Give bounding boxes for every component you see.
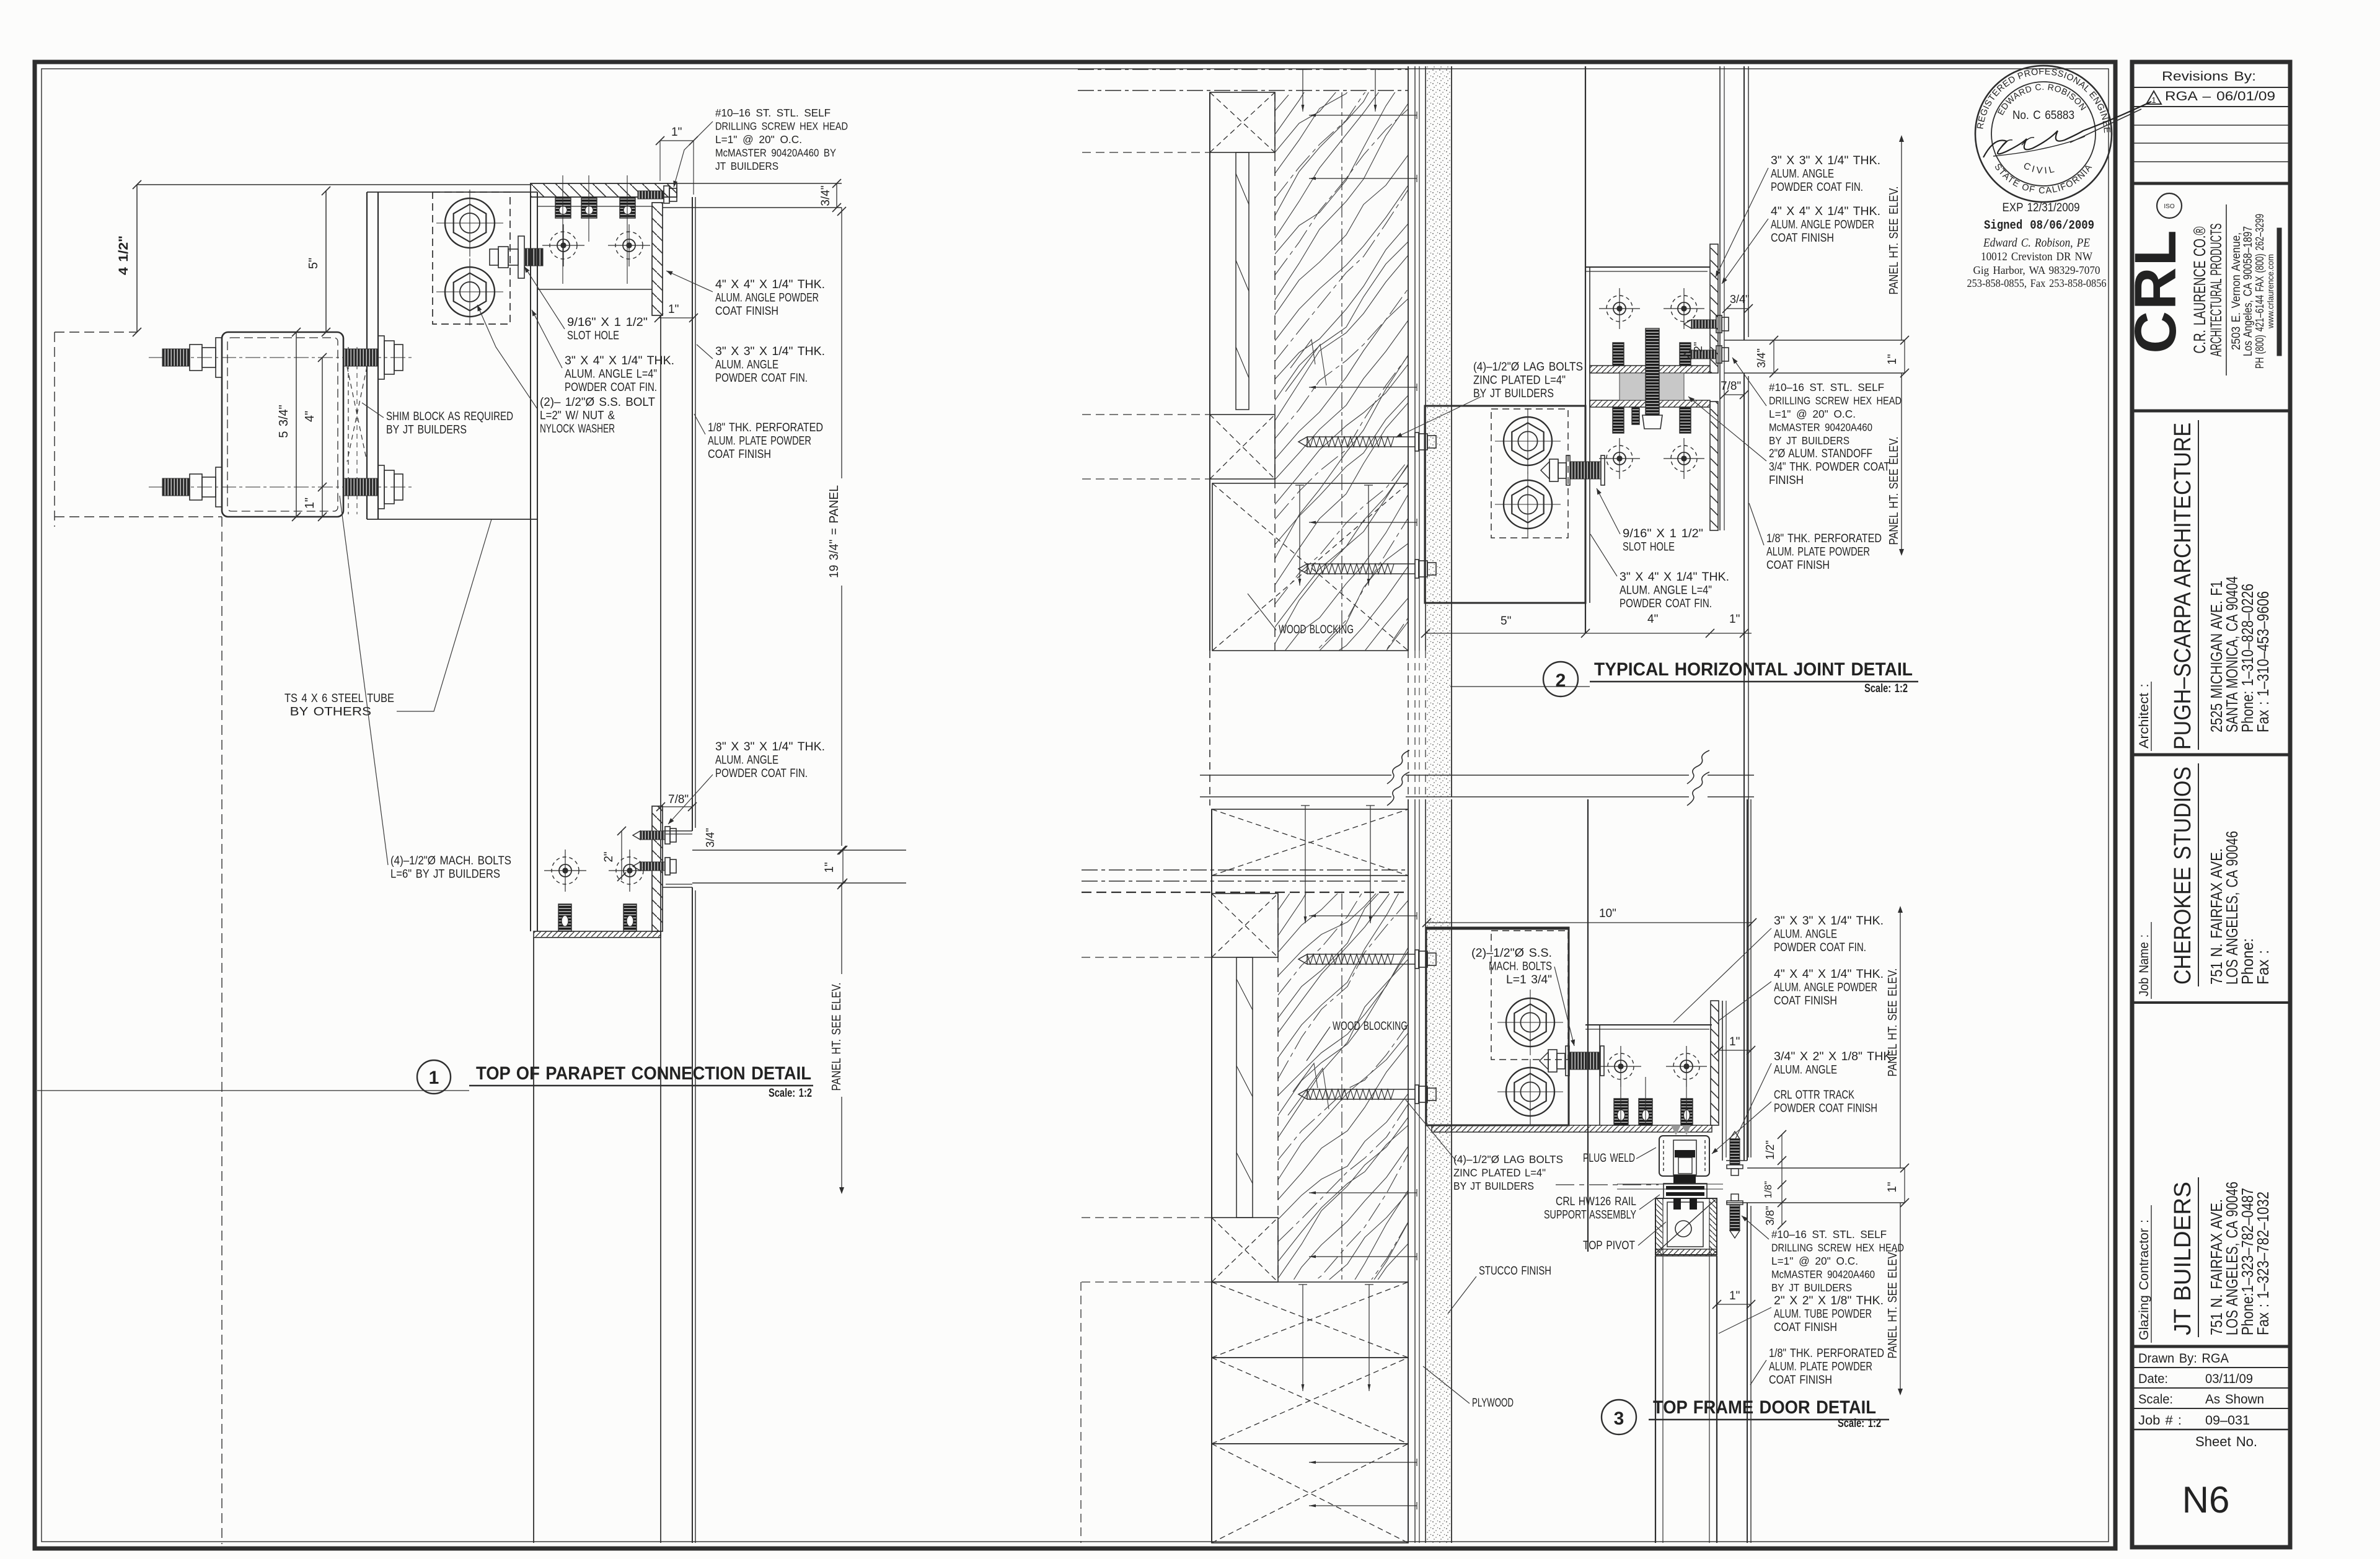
svg-text:Glazing Contractor :: Glazing Contractor : (2137, 1219, 2151, 1340)
svg-text:Fax : 1–310–453–9606: Fax : 1–310–453–9606 (2254, 591, 2272, 732)
svg-text:PANEL HT. SEE ELEV.: PANEL HT. SEE ELEV. (1887, 437, 1901, 545)
4x4 angle horizontal leg (1585, 266, 1710, 268)
door joint jog (1726, 1160, 1747, 1161)
svg-text:TOP FRAME DOOR DETAIL: TOP FRAME DOOR DETAIL (1653, 1397, 1876, 1418)
ss bolt through slot (490, 249, 498, 265)
svg-text:Date:: Date: (2138, 1372, 2168, 1386)
svg-text:3/4": 3/4" (704, 828, 716, 847)
dim 5 3/4" (296, 332, 297, 517)
svg-text:5 3/4": 5 3/4" (277, 405, 291, 438)
wall left line (1211, 809, 1212, 1543)
stud plank (1236, 957, 1253, 1218)
svg-text:STUCCO FINISH: STUCCO FINISH (1479, 1265, 1551, 1278)
tube mounting plate (366, 192, 368, 519)
svg-text:Architect :: Architect : (2137, 683, 2151, 749)
lower blocking box (1212, 483, 1408, 651)
dim 10" (1427, 922, 1752, 923)
OTTR track (1659, 1136, 1709, 1176)
svg-text:www.crlaurence.com: www.crlaurence.com (2265, 254, 2275, 329)
angle plate verticals (1585, 66, 1586, 633)
svg-text:1": 1" (1729, 613, 1740, 626)
svg-text:09–031: 09–031 (2205, 1413, 2250, 1428)
svg-text:TOP PIVOT: TOP PIVOT (1583, 1239, 1635, 1252)
hidden plate lines (1082, 152, 1210, 153)
DETAIL 2 : TYPICAL HORIZONTAL JOINT (1078, 0, 1918, 1161)
detail 2 title (1543, 662, 1578, 696)
dim 1" top (660, 140, 694, 141)
dim 5" (325, 191, 327, 332)
panel dim line 19 3/4 (841, 208, 842, 478)
pivot centerline (1556, 1184, 1659, 1185)
lag bolt upper (1298, 954, 1307, 964)
svg-text:Sheet No.: Sheet No. (2195, 1434, 2257, 1449)
svg-text:3: 3 (1614, 1408, 1624, 1429)
stud centerline (1341, 92, 1342, 651)
dim 1" lower (1717, 1304, 1751, 1305)
top plate hidden lines (1078, 69, 1408, 70)
svg-text:WOOD BLOCKING: WOOD BLOCKING (1279, 623, 1354, 636)
stamp signature (1983, 102, 2151, 157)
svg-text:CHEROKEE STUDIOS: CHEROKEE STUDIOS (2170, 766, 2196, 985)
svg-text:1": 1" (1729, 1035, 1740, 1048)
svg-text:PLUG WELD: PLUG WELD (1583, 1152, 1635, 1165)
break lines between details (1200, 775, 1391, 776)
DETAIL 3 : TOP FRAME DOOR (1081, 750, 1909, 1543)
svg-text:4": 4" (303, 411, 317, 422)
bracket hex bolt lower (445, 267, 495, 317)
svg-text:1": 1" (1886, 354, 1899, 364)
svg-text:Edward C. Robison, PE: Edward C. Robison, PE (1983, 236, 2090, 250)
wall sheathing (1408, 799, 1409, 1543)
angle face lines (1722, 1001, 1723, 1161)
svg-text:As Shown: As Shown (2205, 1392, 2264, 1407)
svg-text:Scale:: Scale: (2138, 1392, 2173, 1407)
dim 4 1/2" (136, 185, 138, 332)
svg-text:5": 5" (307, 258, 320, 269)
steel tube TS4x6 (222, 332, 343, 517)
svg-text:RGA – 06/01/09: RGA – 06/01/09 (2165, 89, 2275, 103)
top pivot box (1655, 1198, 1717, 1255)
4x4 angle hatched leg (652, 203, 663, 315)
anchor studs lower (558, 904, 571, 931)
3x3 angle hatched leg (1710, 402, 1718, 530)
panel joint lines right (1744, 340, 1905, 341)
svg-text:7/8": 7/8" (1721, 380, 1741, 393)
angle face lines (1719, 66, 1721, 530)
joint lines right (1747, 1167, 1905, 1169)
slot circles (1608, 1053, 1634, 1079)
top blocking box (1212, 809, 1408, 876)
svg-text:N6: N6 (2182, 1479, 2230, 1521)
DETAIL 1 : TOP OF PARAPET CONNECTION (37, 107, 906, 1544)
engineer stamp (1975, 66, 2112, 202)
svg-text:1/2": 1/2" (1764, 1140, 1776, 1159)
dim 1" joint (842, 850, 844, 883)
slot circles lower (552, 857, 579, 884)
svg-text:Scale: 1:2: Scale: 1:2 (769, 1087, 812, 1100)
svg-text:EXP 12/31/2009: EXP 12/31/2009 (2003, 201, 2080, 214)
detail 3 title (1602, 1400, 1636, 1434)
machine bolt upper (149, 357, 414, 358)
perforated panel face (692, 197, 693, 831)
lower angle hatched leg (652, 806, 663, 931)
rail support assembly (1673, 1175, 1696, 1184)
cap screw (638, 191, 664, 199)
svg-text:3/8": 3/8" (1764, 1206, 1776, 1225)
dim 3/4" joint (1773, 340, 1774, 373)
bottom plate lower bracket (534, 931, 661, 938)
revision 1 row (2146, 91, 2161, 104)
svg-text:TOP OF PARAPET CONNECTION DETA: TOP OF PARAPET CONNECTION DETAIL (476, 1063, 811, 1084)
ss mach bolt (1540, 1052, 1548, 1069)
bracket angle dashed outline (433, 192, 510, 324)
svg-text:Scale: 1:2: Scale: 1:2 (1864, 682, 1908, 695)
shim block (347, 367, 367, 462)
svg-text:4": 4" (1647, 613, 1658, 626)
detail 1 title (417, 1060, 451, 1094)
nails (1309, 115, 1417, 116)
svg-text:1": 1" (1729, 1289, 1740, 1302)
bolt circles (1606, 296, 1633, 322)
bracket box (1426, 928, 1569, 1125)
door tube (1655, 1249, 1717, 1256)
svg-text:1": 1" (303, 498, 317, 509)
svg-text:WOOD BLOCKING: WOOD BLOCKING (1333, 1020, 1408, 1033)
svg-text:2: 2 (1556, 670, 1566, 691)
panel face upper (1747, 799, 1748, 1161)
lower stud box (1212, 1218, 1278, 1282)
svg-text:ARCHITECTURAL PRODUCTS: ARCHITECTURAL PRODUCTS (2208, 224, 2225, 357)
plate hidden band (1082, 869, 1408, 871)
svg-text:C.R. LAURENCE CO.®: C.R. LAURENCE CO.® (2190, 226, 2209, 353)
bottom blocking boxes (1212, 1282, 1408, 1358)
left stud box (1212, 894, 1278, 957)
svg-text:Signed 08/06/2009: Signed 08/06/2009 (1984, 219, 2094, 233)
svg-text:ISO: ISO (2164, 203, 2174, 210)
svg-text:1: 1 (2151, 95, 2156, 105)
svg-text:Job # :: Job # : (2138, 1413, 2182, 1428)
plywood (1419, 66, 1420, 651)
svg-text:1: 1 (429, 1068, 439, 1088)
wall sheathing lines (1408, 66, 1409, 651)
door header top (1585, 1024, 1712, 1025)
joint dims stack (1781, 1135, 1783, 1225)
bracket hex bolt lower (1506, 1068, 1554, 1116)
machine bolt lower (149, 486, 414, 488)
svg-text:Job Name :: Job Name : (2137, 934, 2151, 996)
top stud box (1210, 92, 1275, 152)
svg-text:1/8": 1/8" (1763, 1181, 1774, 1198)
svg-text:PANEL HT. SEE ELEV.: PANEL HT. SEE ELEV. (1887, 187, 1901, 295)
panel ht lower (1900, 1203, 1901, 1393)
bracket box (1425, 406, 1585, 603)
panel face lower (1743, 373, 1745, 1161)
bottom dims (1426, 633, 1752, 634)
standoff plates (1590, 366, 1710, 373)
angle vertical plate lines (530, 192, 531, 931)
panel joint jog (1724, 340, 1744, 341)
threaded rods (1646, 328, 1659, 415)
self drilling screw upper (1730, 1139, 1740, 1165)
hidden lines left low (1082, 957, 1212, 958)
dim 1" right (1904, 1168, 1905, 1203)
svg-text:TYPICAL HORIZONTAL JOINT DETAI: TYPICAL HORIZONTAL JOINT DETAIL (1594, 659, 1913, 680)
stud plank (1236, 152, 1249, 410)
svg-text:PUGH–SCARPA ARCHITECTURE: PUGH–SCARPA ARCHITECTURE (2170, 423, 2196, 750)
svg-text:253-858-0855, Fax 253-858-085: 253-858-0855, Fax 253-858-0856 (1967, 277, 2107, 289)
svg-text:1": 1" (823, 862, 836, 872)
slot bolt circles (550, 232, 577, 259)
svg-text:5": 5" (1501, 615, 1511, 628)
lag bolt lower (1298, 564, 1307, 574)
svg-text:Gig Harbor, WA 98329-7070: Gig Harbor, WA 98329-7070 (1973, 264, 2100, 276)
panel ht upper (1901, 138, 1902, 340)
svg-text:1": 1" (1886, 1182, 1899, 1192)
nails (1305, 806, 1306, 923)
svg-text:Fax :: Fax : (2254, 950, 2272, 985)
svg-text:No. C 65883: No. C 65883 (2012, 109, 2074, 122)
title block frame (2132, 62, 2290, 1547)
dim 3/4" top (1727, 308, 1748, 309)
ss mach bolt (1541, 462, 1549, 479)
panel face upper (1743, 66, 1745, 340)
standoff block (1620, 373, 1684, 400)
svg-text:CRL HW126 RAILSUPPORT ASSEMBLY: CRL HW126 RAILSUPPORT ASSEMBLY (1544, 1195, 1636, 1222)
stud wall left line (1209, 92, 1210, 651)
bracket hex bolt lower (1504, 480, 1552, 529)
plywood (1419, 799, 1420, 1543)
svg-text:1": 1" (671, 126, 682, 139)
dim 1" upper (1719, 1050, 1751, 1051)
stucco (1427, 799, 1451, 1543)
svg-text:PANEL HT. SEE ELEV.: PANEL HT. SEE ELEV. (830, 983, 844, 1091)
svg-text:19 3/4" = PANEL: 19 3/4" = PANEL (827, 485, 841, 578)
svg-text:2": 2" (602, 851, 615, 862)
svg-text:10012 Creviston DR NW: 10012 Creviston DR NW (1981, 250, 2092, 263)
panel screws lower joint (640, 831, 665, 840)
plug welds (1671, 1125, 1681, 1135)
svg-text:PANEL HT. SEE ELEV.: PANEL HT. SEE ELEV. (1886, 1250, 1900, 1359)
stucco (1427, 66, 1451, 797)
panel face lower (1747, 1203, 1748, 1543)
svg-text:Scale: 1:2: Scale: 1:2 (1838, 1417, 1881, 1430)
bracket hex bolt upper (445, 198, 495, 248)
panel screws (1691, 320, 1716, 328)
svg-text:3/4": 3/4" (819, 185, 832, 206)
panel ht lower (1901, 373, 1902, 553)
svg-text:CRL: CRL (2123, 229, 2188, 353)
dim 1" angle to panel (659, 317, 694, 318)
self drilling screw lower (1727, 1201, 1743, 1205)
svg-text:Los Angeles, CA 90058–1897: Los Angeles, CA 90058–1897 (2242, 226, 2255, 356)
svg-text:2503 E. Vernon Avenue,: 2503 E. Vernon Avenue, (2230, 232, 2243, 350)
bracket hex bolt upper (1506, 998, 1554, 1047)
dims 4" and 1" (322, 358, 323, 517)
anchor studs under cap (555, 197, 571, 218)
hidden lines left (55, 332, 137, 333)
anchor studs (1614, 1099, 1628, 1125)
svg-text:3/4": 3/4" (1755, 348, 1768, 367)
svg-text:1": 1" (668, 303, 679, 316)
svg-text:Fax : 1–323–782–1032: Fax : 1–323–782–1032 (2254, 1192, 2272, 1335)
plate verticals (1587, 799, 1589, 1252)
svg-text:(4)–1/2"Ø MACH. BOLTSL=6" BY J: (4)–1/2"Ø MACH. BOLTSL=6" BY JT BUILDERS (390, 854, 511, 881)
svg-text:Revisions By:: Revisions By: (2162, 69, 2256, 84)
stud centerline (1341, 894, 1342, 1280)
svg-text:PH (800) 421–6144 FAX (800) 26: PH (800) 421–6144 FAX (800) 262–3299 (2254, 214, 2266, 369)
svg-text:PLYWOOD: PLYWOOD (1472, 1397, 1514, 1410)
svg-text:3/4": 3/4" (1730, 293, 1749, 305)
svg-text:4 1/2": 4 1/2" (117, 235, 131, 275)
svg-text:2": 2" (1692, 342, 1704, 352)
parapet cap plate (531, 183, 677, 197)
mid stud box (1210, 415, 1275, 479)
svg-text:10": 10" (1599, 907, 1616, 920)
4x4 angle hatched leg (1710, 244, 1718, 373)
lag bolt lower (1298, 1089, 1307, 1099)
empty revision rows (2132, 125, 2290, 126)
lag bolt upper (1298, 437, 1307, 447)
dim 1" joint (1904, 340, 1905, 373)
panel ht upper (1900, 908, 1901, 1168)
4x4 angle hatched leg (1711, 1001, 1719, 1125)
dim 2" (621, 831, 622, 880)
panel joint lines (692, 850, 906, 851)
bottom plate hatched (1432, 1125, 1712, 1132)
svg-text:03/11/09: 03/11/09 (2205, 1372, 2253, 1386)
svg-text:JT BUILDERS: JT BUILDERS (2170, 1182, 2196, 1335)
dim 3/4" right (832, 179, 841, 188)
svg-text:Drawn By: RGA: Drawn By: RGA (2138, 1351, 2229, 1366)
bracket hex bolt upper (1504, 417, 1552, 465)
